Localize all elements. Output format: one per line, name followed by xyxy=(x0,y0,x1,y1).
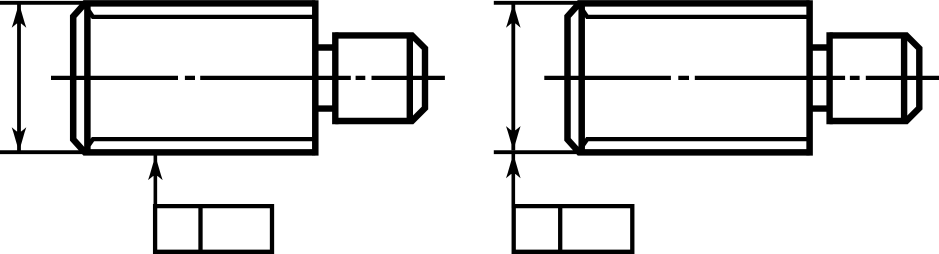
head left edge left figure xyxy=(332,32,338,124)
body outline right figure xyxy=(568,0,810,155)
head chamfer edge line right figure xyxy=(901,35,907,121)
leader line left figure xyxy=(154,156,158,209)
dimension arrow up left figure xyxy=(12,3,27,28)
thread chamfer diagonal top right figure xyxy=(582,9,588,17)
thread root line bottom left figure xyxy=(92,137,316,141)
body right edge left figure xyxy=(312,0,319,155)
leader arrow right figure xyxy=(506,154,521,179)
extension line bottom left figure xyxy=(0,150,90,154)
tolerance frame divider left figure xyxy=(198,206,202,252)
head outline right figure xyxy=(830,35,920,121)
thread root line bottom right figure xyxy=(586,137,810,141)
dimension line (vertical) right figure xyxy=(511,3,515,150)
thread chamfer diagonal top left figure xyxy=(87,9,93,17)
extension line top right figure xyxy=(494,1,581,5)
body right edge right figure xyxy=(806,0,813,155)
head left edge right figure xyxy=(826,32,832,124)
extension line top left figure xyxy=(0,1,86,5)
tolerance frame left figure xyxy=(155,206,272,252)
extension line bottom right figure xyxy=(494,150,585,154)
body outline left figure xyxy=(73,0,315,155)
dimension arrow down right figure xyxy=(506,126,521,151)
dimension arrow down left figure xyxy=(12,127,27,152)
thread root line top right figure xyxy=(586,15,810,19)
neck top line right figure xyxy=(810,44,830,50)
thread root line top left figure xyxy=(92,15,316,19)
thread chamfer edge vertical right figure xyxy=(578,3,585,152)
dimension arrow up right figure xyxy=(506,3,521,28)
tolerance frame right figure xyxy=(514,206,633,252)
neck bottom line right figure xyxy=(810,105,830,111)
leader line right figure xyxy=(511,154,515,209)
neck bottom line left figure xyxy=(315,105,335,111)
tolerance frame divider right figure xyxy=(558,206,562,252)
thread chamfer edge vertical left figure xyxy=(84,3,91,152)
head chamfer edge line left figure xyxy=(407,35,413,121)
thread chamfer diagonal bottom right figure xyxy=(582,139,588,147)
neck top line left figure xyxy=(315,44,335,50)
dimension line (vertical) left figure xyxy=(17,3,21,152)
thread chamfer diagonal bottom left figure xyxy=(87,139,93,147)
centerline (axis) right figure xyxy=(544,76,939,80)
leader arrow left figure xyxy=(148,156,163,181)
centerline (axis) left figure xyxy=(51,76,445,80)
head outline left figure xyxy=(335,35,425,121)
